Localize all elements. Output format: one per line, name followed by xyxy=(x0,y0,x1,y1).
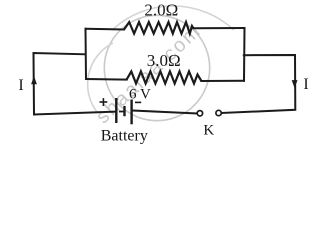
svg-text:I: I xyxy=(18,77,23,94)
svg-text:3.0Ω: 3.0Ω xyxy=(147,51,181,70)
svg-text:6 V: 6 V xyxy=(129,86,151,102)
svg-text:I: I xyxy=(303,76,308,93)
svg-text:K: K xyxy=(203,123,214,139)
svg-text:2.0Ω: 2.0Ω xyxy=(144,1,178,20)
svg-text:Battery: Battery xyxy=(101,127,148,144)
